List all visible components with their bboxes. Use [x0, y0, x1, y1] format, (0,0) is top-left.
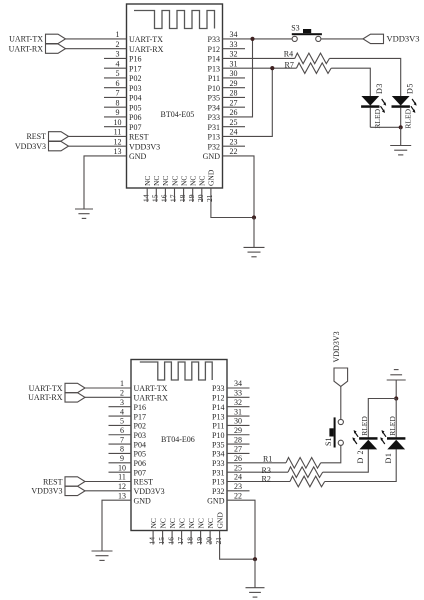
svg-text:RLED: RLED — [360, 416, 369, 436]
ground GND6 bottom — [246, 588, 265, 597]
svg-text:12: 12 — [118, 482, 126, 491]
svg-text:17: 17 — [169, 194, 178, 202]
port VDD3V3 flag — [49, 141, 69, 150]
svg-text:P07: P07 — [129, 123, 141, 132]
port VDD3V3 flag — [65, 486, 85, 495]
svg-text:D 2: D 2 — [356, 450, 365, 464]
svg-text:R2: R2 — [262, 475, 271, 484]
svg-text:7: 7 — [120, 435, 124, 444]
junction LED anode junction — [394, 396, 398, 400]
svg-text:32: 32 — [234, 398, 242, 407]
svg-text:24: 24 — [230, 128, 238, 137]
svg-text:REST: REST — [134, 478, 154, 487]
wire pin 13 GND to ground — [84, 156, 127, 209]
svg-text:33: 33 — [230, 40, 238, 49]
svg-text:NC: NC — [170, 176, 179, 186]
wire LED anode net to D1 — [395, 399, 397, 438]
svg-text:P13: P13 — [208, 64, 220, 73]
svg-text:NC: NC — [149, 518, 158, 528]
svg-text:3: 3 — [120, 398, 124, 407]
svg-text:P16: P16 — [129, 55, 141, 64]
svg-text:RLED: RLED — [404, 108, 413, 128]
svg-text:P32: P32 — [212, 487, 224, 496]
svg-text:34: 34 — [230, 30, 238, 39]
svg-text:P33: P33 — [212, 459, 224, 468]
svg-text:UART-TX: UART-TX — [129, 35, 163, 44]
svg-text:19: 19 — [195, 537, 204, 545]
wire pin 22 GND right (bottom module) — [227, 500, 255, 559]
svg-text:28: 28 — [230, 89, 238, 98]
wire pin 25 P31 to R3 — [227, 471, 288, 473]
svg-text:UART-TX: UART-TX — [9, 35, 43, 44]
wire to ground below LEDs — [400, 127, 402, 145]
svg-text:P05: P05 — [134, 450, 146, 459]
resistor R2 — [290, 476, 325, 487]
svg-text:25: 25 — [230, 118, 238, 127]
svg-text:15: 15 — [151, 194, 160, 202]
svg-text:NC: NC — [152, 176, 161, 186]
svg-text:UART-TX: UART-TX — [29, 384, 63, 393]
svg-text:15: 15 — [157, 537, 166, 545]
svg-text:26: 26 — [230, 108, 238, 117]
junction P13 net junction — [270, 66, 274, 70]
svg-text:R7: R7 — [285, 61, 294, 70]
svg-text:31: 31 — [230, 59, 238, 68]
svg-text:P07: P07 — [134, 468, 146, 477]
svg-text:4: 4 — [120, 407, 124, 416]
svg-text:REST: REST — [129, 133, 149, 142]
svg-text:P11: P11 — [212, 422, 224, 431]
svg-text:6: 6 — [116, 79, 120, 88]
port UART-RX flag — [46, 44, 66, 53]
svg-text:31: 31 — [234, 407, 242, 416]
ground GND3 top-bottom — [244, 247, 265, 256]
wire pin 26 P33 to R1 — [227, 462, 286, 464]
svg-text:16: 16 — [160, 194, 169, 202]
svg-text:VDD3V3: VDD3V3 — [15, 142, 46, 151]
svg-text:GND: GND — [215, 512, 224, 529]
svg-text:RLED: RLED — [373, 108, 382, 128]
wire pin 34 P33 to switch S3 — [223, 38, 293, 40]
wire pin 32 P14 to R4 — [223, 57, 295, 59]
wire to ground below module (bottom) — [254, 559, 256, 588]
ground GND1 top-left — [75, 209, 93, 218]
svg-text:8: 8 — [120, 445, 124, 454]
wire R2 to LED D1 — [325, 449, 397, 481]
svg-text:10: 10 — [118, 463, 126, 472]
svg-text:GND: GND — [134, 496, 152, 505]
svg-text:17: 17 — [176, 537, 185, 545]
junction GND net junction bottom — [253, 557, 257, 561]
svg-text:P32: P32 — [208, 142, 220, 151]
svg-text:10: 10 — [114, 118, 122, 127]
wire pin 22 GND right — [223, 156, 255, 218]
svg-text:NC: NC — [158, 518, 167, 528]
svg-text:8: 8 — [116, 98, 120, 107]
svg-text:BT04-E05: BT04-E05 — [161, 110, 195, 119]
wire VDD3V3 to pin 12 — [69, 145, 127, 147]
wire inverted ground down to LED anodes — [395, 380, 397, 399]
switch S3 — [292, 29, 322, 42]
svg-text:11: 11 — [114, 128, 122, 137]
svg-text:NC: NC — [179, 176, 188, 186]
module BT04-E05 left pin name labels — [129, 35, 164, 161]
svg-text:NC: NC — [187, 518, 196, 528]
wire REST to pin 11 (bottom module) — [85, 481, 131, 483]
module BT04-E06 bottom pin name labels NC/GND — [149, 512, 225, 529]
resistor R4 — [295, 53, 330, 64]
module BT04-E05 bottom pin name labels NC/GND — [143, 169, 216, 186]
module BT04-E06 left pin stubs — [109, 407, 132, 472]
svg-text:VDD3V3: VDD3V3 — [31, 487, 62, 496]
svg-text:P10: P10 — [208, 84, 220, 93]
module BT04-E06 pin numbers 34-22 — [234, 379, 242, 500]
module BT04-E05 right pin name labels — [203, 35, 221, 161]
svg-text:P05: P05 — [129, 103, 141, 112]
wire LED D3 cathode down — [369, 108, 371, 128]
svg-text:9: 9 — [116, 108, 120, 117]
wire pin 31 P13 to R7 — [223, 67, 297, 69]
wire UART-TX to pin 1 (bottom module) — [85, 387, 131, 389]
junction LED cathode junction — [399, 125, 403, 129]
svg-text:5: 5 — [116, 69, 120, 78]
module BT04-E05 right pin stubs — [223, 49, 246, 146]
svg-text:P17: P17 — [134, 412, 146, 421]
port VDD3V3 (top right) flag — [363, 34, 384, 43]
svg-text:NC: NC — [168, 518, 177, 528]
svg-text:UART-RX: UART-RX — [134, 394, 169, 403]
svg-text:P14: P14 — [208, 55, 220, 64]
port REST flag — [65, 477, 85, 486]
wire VDD3V3 to pin 12 (bottom module) — [85, 490, 131, 492]
port UART-RX flag — [65, 393, 85, 402]
svg-text:7: 7 — [116, 89, 120, 98]
svg-text:P11: P11 — [208, 74, 220, 83]
svg-text:S1: S1 — [324, 438, 333, 446]
wire net P33 pin34 to pin26 vertical — [223, 39, 253, 117]
svg-text:32: 32 — [230, 50, 238, 59]
svg-text:UART-RX: UART-RX — [129, 45, 164, 54]
wire S3 to VDD3V3 port — [321, 38, 363, 40]
svg-text:P35: P35 — [208, 94, 220, 103]
wire net P13 pin31 to pin24 vertical — [223, 68, 273, 136]
ground GND2 top-right — [390, 146, 411, 155]
wire VDD3V3 to switch S1 — [340, 386, 342, 419]
svg-text:P13: P13 — [208, 133, 220, 142]
svg-text:VDD3V3: VDD3V3 — [134, 487, 165, 496]
svg-text:18: 18 — [185, 537, 194, 545]
svg-text:GND: GND — [129, 152, 147, 161]
svg-text:UART-RX: UART-RX — [9, 44, 44, 53]
svg-text:P06: P06 — [129, 113, 141, 122]
svg-text:4: 4 — [116, 59, 120, 68]
wire LED D5 cathode down — [400, 108, 402, 128]
svg-text:P02: P02 — [129, 74, 141, 83]
svg-text:REST: REST — [43, 477, 63, 486]
module BT04-E06 bottom pin stubs 14-20 — [153, 531, 210, 545]
svg-text:NC: NC — [198, 176, 207, 186]
svg-text:BT04-E06: BT04-E06 — [161, 435, 195, 444]
svg-text:D3: D3 — [375, 83, 384, 94]
svg-text:29: 29 — [234, 426, 242, 435]
module BT04-E05 pin numbers 14-21 — [141, 194, 214, 202]
wire R1 to switch S1 — [321, 445, 341, 462]
LED D1 symbol — [380, 430, 405, 449]
svg-text:P17: P17 — [129, 64, 141, 73]
svg-text:19: 19 — [187, 194, 196, 202]
module BT04-E06 pin numbers 14-21 — [147, 537, 223, 545]
svg-text:R4: R4 — [284, 50, 293, 59]
svg-text:NC: NC — [189, 176, 198, 186]
svg-text:NC: NC — [177, 518, 186, 528]
svg-text:GND: GND — [207, 169, 216, 186]
svg-text:GND: GND — [207, 496, 225, 505]
svg-text:11: 11 — [118, 473, 126, 482]
svg-text:25: 25 — [234, 463, 242, 472]
wire to ground below module — [253, 218, 255, 248]
wire LED anode net to D2 — [368, 399, 396, 438]
svg-text:20: 20 — [196, 194, 205, 202]
svg-text:VDD3V3: VDD3V3 — [387, 34, 420, 44]
svg-text:REST: REST — [26, 132, 46, 141]
svg-text:5: 5 — [120, 417, 124, 426]
svg-text:P34: P34 — [208, 103, 220, 112]
svg-text:23: 23 — [234, 482, 242, 491]
module BT04-E06 pin numbers 1-13 — [118, 379, 126, 500]
switch S1 — [329, 417, 343, 447]
svg-text:2: 2 — [120, 389, 124, 398]
svg-text:16: 16 — [166, 537, 175, 545]
port VDD3V3 (bottom circuit) flag — [334, 368, 348, 386]
svg-text:P34: P34 — [212, 450, 224, 459]
wire UART-TX to pin 1 — [66, 38, 127, 40]
svg-text:P31: P31 — [212, 468, 224, 477]
svg-text:P06: P06 — [134, 459, 146, 468]
module BT04-E06 left pin name labels — [134, 384, 169, 505]
wire pin 21 GND bottom (bottom module) — [220, 531, 255, 560]
svg-text:P04: P04 — [129, 94, 141, 103]
svg-text:P03: P03 — [129, 84, 141, 93]
svg-text:VDD3V3: VDD3V3 — [332, 331, 341, 362]
LED D5 symbol — [392, 96, 417, 113]
module BT04-E05 antenna meander — [134, 11, 215, 29]
svg-text:NC: NC — [196, 518, 205, 528]
svg-text:34: 34 — [234, 379, 242, 388]
port REST flag — [49, 132, 69, 141]
svg-text:21: 21 — [205, 194, 214, 202]
wire pin 13 GND to ground (bottom module) — [102, 500, 131, 551]
svg-text:P31: P31 — [208, 123, 220, 132]
module BT04-E05 bottom pin stubs 14-20 — [147, 188, 202, 202]
junction P33 net junction — [250, 37, 254, 41]
svg-text:P12: P12 — [212, 394, 224, 403]
svg-text:29: 29 — [230, 79, 238, 88]
wire R3 to LED D2 — [323, 449, 369, 472]
svg-text:NC: NC — [161, 176, 170, 186]
svg-text:30: 30 — [234, 417, 242, 426]
svg-text:33: 33 — [234, 389, 242, 398]
svg-text:24: 24 — [234, 473, 242, 482]
svg-text:P03: P03 — [134, 431, 146, 440]
svg-text:3: 3 — [116, 50, 120, 59]
svg-text:13: 13 — [118, 491, 126, 500]
module BT04-E05 left pin stubs — [104, 58, 127, 126]
svg-text:23: 23 — [230, 137, 238, 146]
svg-text:D1: D1 — [384, 453, 393, 464]
svg-text:30: 30 — [230, 69, 238, 78]
svg-text:P33: P33 — [208, 113, 220, 122]
wire REST to pin 11 — [69, 135, 127, 137]
svg-text:2: 2 — [116, 40, 120, 49]
module BT04-E06 body — [131, 360, 227, 531]
port UART-TX flag — [65, 383, 85, 392]
svg-text:RLED: RLED — [388, 416, 397, 436]
svg-text:NC: NC — [206, 518, 215, 528]
svg-text:12: 12 — [114, 137, 122, 146]
svg-text:P14: P14 — [212, 403, 224, 412]
svg-text:9: 9 — [120, 454, 124, 463]
LED D3 symbol — [361, 96, 386, 113]
svg-text:22: 22 — [230, 147, 238, 156]
wire LED cathodes join — [370, 126, 400, 128]
svg-text:27: 27 — [230, 98, 238, 107]
svg-text:GND: GND — [203, 152, 221, 161]
wire pin 21 GND bottom — [211, 188, 254, 218]
svg-text:UART-RX: UART-RX — [28, 393, 63, 402]
svg-text:22: 22 — [234, 491, 242, 500]
svg-text:P13: P13 — [212, 412, 224, 421]
svg-text:1: 1 — [120, 379, 124, 388]
svg-text:UART-TX: UART-TX — [134, 384, 168, 393]
svg-text:26: 26 — [234, 454, 242, 463]
svg-text:P13: P13 — [212, 478, 224, 487]
svg-text:R1: R1 — [263, 455, 272, 464]
svg-text:14: 14 — [147, 537, 156, 545]
svg-text:P02: P02 — [134, 422, 146, 431]
resistor R7 — [297, 63, 332, 74]
wire UART-RX to pin 2 — [66, 48, 127, 50]
wire R7 to LED D3 — [331, 68, 370, 96]
junction GND net junction — [252, 215, 256, 219]
svg-text:28: 28 — [234, 435, 242, 444]
wire pin 24 P13 to R2 — [227, 481, 290, 483]
svg-text:P33: P33 — [212, 384, 224, 393]
module BT04-E06 antenna meander — [140, 362, 212, 380]
svg-text:14: 14 — [141, 194, 150, 202]
svg-text:20: 20 — [204, 537, 213, 545]
svg-text:P12: P12 — [208, 45, 220, 54]
svg-text:P33: P33 — [208, 35, 220, 44]
svg-text:P16: P16 — [134, 403, 146, 412]
svg-text:VDD3V3: VDD3V3 — [129, 142, 160, 151]
svg-text:6: 6 — [120, 426, 124, 435]
svg-text:27: 27 — [234, 445, 242, 454]
wire R4 to LED D5 — [330, 58, 401, 96]
module BT04-E06 right pin stubs — [227, 388, 250, 491]
resistor R1 — [286, 458, 321, 469]
svg-text:P04: P04 — [134, 440, 146, 449]
module BT04-E05 body — [127, 4, 223, 188]
svg-text:13: 13 — [114, 147, 122, 156]
resistor R3 — [288, 467, 323, 478]
wire UART-RX to pin 2 (bottom module) — [85, 396, 131, 398]
module BT04-E05 pin numbers 34-22 — [230, 30, 238, 156]
svg-text:P35: P35 — [212, 440, 224, 449]
svg-text:21: 21 — [214, 537, 223, 545]
module BT04-E06 right pin name labels — [207, 384, 225, 505]
svg-text:S3: S3 — [291, 24, 299, 33]
ground GND4 bottom-left — [92, 551, 113, 560]
module BT04-E05 pin numbers 1-13 — [114, 30, 122, 156]
svg-text:18: 18 — [178, 194, 187, 202]
svg-text:P10: P10 — [212, 431, 224, 440]
port UART-TX flag — [46, 34, 66, 43]
ground (inverted) GND5 bottom-right-top — [387, 370, 406, 380]
LED D2 symbol — [352, 430, 377, 449]
svg-text:D5: D5 — [406, 83, 415, 94]
svg-text:1: 1 — [116, 30, 120, 39]
svg-text:NC: NC — [143, 176, 152, 186]
